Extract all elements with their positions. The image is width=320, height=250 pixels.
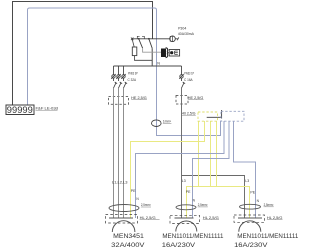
svg-text:L1,L2,L3: L1,L2,L3 (112, 180, 128, 184)
svg-text:L3: L3 (245, 179, 249, 183)
svg-text:40 2,5/G: 40 2,5/G (182, 111, 196, 115)
svg-text:16A/230V: 16A/230V (162, 242, 196, 249)
svg-text:MEN11011/MEN11111: MEN11011/MEN11111 (162, 233, 223, 240)
svg-text:16A/230V: 16A/230V (234, 242, 268, 249)
svg-text:2,5mm²: 2,5mm² (264, 203, 274, 207)
svg-text:PN63 1P: PN63 1P (184, 72, 194, 76)
svg-text:N: N (157, 61, 160, 65)
svg-text:F&F LE-03d: F&F LE-03d (36, 105, 59, 110)
svg-text:PE: PE (186, 190, 191, 194)
svg-text:32A/400V: 32A/400V (111, 242, 145, 249)
svg-text:PE: PE (131, 189, 136, 193)
svg-text:2,5mm²: 2,5mm² (198, 203, 208, 207)
svg-text:C 16A: C 16A (184, 78, 193, 82)
svg-text:MEN3451: MEN3451 (113, 233, 144, 240)
svg-text:HE 2,5/G: HE 2,5/G (131, 96, 147, 100)
svg-text:C 32A: C 32A (128, 78, 137, 82)
svg-text:HE 2,5/G: HE 2,5/G (188, 96, 204, 100)
svg-text:MEN11011/MEN11111: MEN11011/MEN11111 (237, 233, 298, 240)
svg-text:HL 2,5/G: HL 2,5/G (203, 216, 219, 220)
svg-text:P304: P304 (178, 26, 186, 30)
svg-text:PE: PE (250, 191, 255, 195)
svg-text:40A/30mA: 40A/30mA (178, 32, 195, 36)
svg-text:2,5mm²: 2,5mm² (141, 203, 151, 207)
svg-text:HL 2,5/G: HL 2,5/G (267, 216, 283, 220)
svg-text:1mm²: 1mm² (163, 120, 172, 124)
svg-text:99999: 99999 (7, 105, 33, 115)
svg-text:PN63 3P: PN63 3P (128, 72, 138, 76)
svg-text:HL 2,5/G: HL 2,5/G (140, 216, 156, 220)
svg-text:L3: L3 (182, 179, 186, 183)
